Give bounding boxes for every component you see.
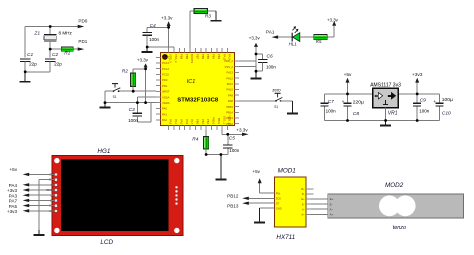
power +3.3v R5 bbox=[333, 26, 335, 37]
node C6 top bbox=[255, 53, 258, 56]
resistor R5 bbox=[314, 35, 328, 40]
pin 21 PB10 bbox=[210, 126, 212, 130]
IC IC1 STM32F103C8 body bbox=[161, 53, 235, 126]
svg-text:IC1: IC1 bbox=[187, 79, 195, 85]
svg-text:PD1: PD1 bbox=[162, 84, 168, 88]
svg-text:C2: C2 bbox=[52, 52, 58, 58]
wire +5v input rail bbox=[324, 93, 372, 95]
svg-text:+3,3v: +3,3v bbox=[249, 35, 261, 40]
pin 48 VDD_3 bbox=[168, 48, 170, 52]
pin 4 PC15 bbox=[156, 73, 160, 75]
LCD right pad 2 bbox=[175, 190, 177, 192]
svg-text:C5: C5 bbox=[229, 136, 235, 142]
svg-text:A-: A- bbox=[330, 207, 333, 211]
svg-text:zero: zero bbox=[271, 87, 281, 92]
wire VSSA link bbox=[137, 96, 156, 98]
capacitor C6 100n bbox=[256, 53, 263, 55]
svg-text:100µ: 100µ bbox=[442, 97, 453, 103]
wire crystal bottom lead bbox=[49, 42, 51, 49]
pin 19 PB1 bbox=[200, 126, 202, 130]
svg-text:A-: A- bbox=[302, 207, 305, 211]
capacitor C4 100n bbox=[142, 32, 152, 34]
resistor R3 bbox=[194, 8, 208, 13]
svg-text:VBAT: VBAT bbox=[162, 56, 169, 60]
svg-text:PA11: PA11 bbox=[227, 82, 234, 86]
LCD pad 1 VCC bbox=[55, 173, 58, 176]
ground R4 C5 bbox=[220, 155, 222, 179]
svg-text:220µ: 220µ bbox=[353, 99, 364, 105]
node C3 right +3.3v drop bbox=[144, 101, 147, 104]
svg-text:tenzo: tenzo bbox=[393, 225, 406, 231]
pin 6 PD1 bbox=[156, 85, 160, 87]
pin 2 PC13 bbox=[156, 62, 160, 64]
wire MOD1 ground bbox=[259, 207, 274, 209]
svg-text:PB11: PB11 bbox=[217, 118, 221, 125]
svg-text:C1: C1 bbox=[27, 52, 33, 58]
node +3.3v C4 tap bbox=[167, 26, 170, 29]
wire to R1 bbox=[50, 48, 61, 50]
node C5 +3.3v bbox=[226, 133, 229, 136]
node S1 ground VSS bbox=[104, 101, 107, 104]
capacitor C2 bbox=[49, 49, 51, 58]
ground LCD bbox=[38, 230, 40, 234]
terminal +3v3 LCD reset bbox=[29, 189, 55, 191]
wire R2 bottom bbox=[132, 87, 134, 92]
svg-text:R4: R4 bbox=[192, 137, 198, 143]
svg-text:+: + bbox=[342, 100, 345, 105]
resistor R1 bbox=[61, 47, 73, 51]
pin 28 PB15 bbox=[235, 106, 239, 108]
svg-text:C3: C3 bbox=[129, 107, 135, 113]
pin 31 PA10 bbox=[235, 89, 239, 91]
pin 26 PB13 bbox=[235, 117, 239, 119]
LCD screen bbox=[61, 160, 169, 232]
wire R5 to +3.3v bbox=[327, 36, 334, 38]
power +3.3v VDD_3 bbox=[168, 26, 170, 48]
LCD right pad 3 bbox=[175, 194, 177, 196]
svg-text:PB1: PB1 bbox=[201, 119, 205, 125]
pin 42 PB6 bbox=[200, 48, 202, 52]
svg-text:LCD: LCD bbox=[100, 239, 113, 246]
LCD hole bottom-right bbox=[174, 228, 179, 233]
pin 5 PD0 bbox=[156, 79, 160, 81]
terminal PA4 LCD bbox=[29, 184, 55, 186]
svg-text:B+: B+ bbox=[301, 187, 305, 191]
node ground stub bbox=[220, 153, 223, 156]
svg-text:+3v3: +3v3 bbox=[412, 72, 423, 78]
svg-text:PB15: PB15 bbox=[226, 105, 233, 109]
pin 12 PA2 bbox=[156, 119, 160, 121]
terminal PA5 LCD bbox=[29, 205, 55, 207]
pin 1 VBAT bbox=[156, 56, 160, 58]
terminal PA1 bbox=[278, 36, 293, 38]
svg-text:STM32F103C8: STM32F103C8 bbox=[177, 97, 219, 103]
svg-text:GND: GND bbox=[276, 206, 282, 210]
svg-text:MOD1: MOD1 bbox=[278, 167, 296, 174]
svg-text:DT: DT bbox=[276, 201, 280, 205]
terminal PD1 bbox=[73, 48, 78, 50]
svg-text:VDD_1: VDD_1 bbox=[228, 115, 232, 124]
wire PA8 bbox=[239, 100, 276, 102]
svg-text:PA5: PA5 bbox=[179, 119, 183, 124]
LCD pad 8 LED bbox=[55, 210, 58, 213]
svg-text:E-: E- bbox=[302, 202, 305, 206]
node +3v3 C9 bbox=[416, 93, 419, 96]
wire R2 top bbox=[133, 68, 145, 70]
wire VDD_1 drop bbox=[221, 130, 223, 134]
pin 25 PB12 bbox=[235, 123, 239, 125]
wire +3v3 output rail bbox=[398, 93, 439, 95]
node C3 left bbox=[136, 101, 139, 104]
power +5v input bbox=[347, 83, 349, 94]
pin 32 PA11 bbox=[235, 83, 239, 85]
terminal +5v LCD bbox=[29, 173, 55, 175]
pin 46 PB9 bbox=[178, 48, 180, 52]
pin 44 BOOT0 bbox=[189, 48, 191, 52]
wire BOOT0 riser bbox=[189, 11, 191, 48]
pin 14 PA4 bbox=[173, 126, 175, 130]
MOD1 pin E+ bbox=[306, 198, 311, 200]
pin 13 PA3 bbox=[168, 126, 170, 130]
svg-text:C6: C6 bbox=[267, 54, 273, 60]
svg-text:VDD_3: VDD_3 bbox=[169, 54, 173, 63]
svg-text:R1: R1 bbox=[64, 50, 70, 56]
svg-text:PA7: PA7 bbox=[190, 119, 194, 124]
svg-text:+5v: +5v bbox=[252, 169, 260, 174]
svg-text:+3.3v: +3.3v bbox=[236, 127, 248, 132]
wire zero to ground bbox=[281, 100, 293, 102]
pin 17 PA7 bbox=[189, 126, 191, 130]
node R2 NRST bbox=[132, 90, 135, 93]
svg-text:A+: A+ bbox=[301, 213, 305, 217]
node R2 +3.3v bbox=[144, 67, 147, 70]
node VR1 ground bbox=[384, 119, 387, 122]
pin 34 PA13 bbox=[235, 71, 239, 73]
svg-text:R2: R2 bbox=[122, 68, 128, 74]
LCD hole bottom-left bbox=[54, 228, 59, 233]
svg-text:+3v3: +3v3 bbox=[7, 209, 18, 214]
svg-text:PB2: PB2 bbox=[206, 119, 210, 125]
ground crystal bbox=[24, 72, 26, 81]
wire R4 bottom bbox=[205, 149, 207, 155]
svg-text:PA8: PA8 bbox=[228, 99, 233, 103]
ground VR1 bbox=[385, 121, 387, 125]
power +5v MOD1 bbox=[260, 192, 275, 194]
svg-text:PB9: PB9 bbox=[179, 54, 183, 60]
svg-text:PC15: PC15 bbox=[162, 73, 169, 77]
VR1 output arrow bbox=[388, 93, 395, 99]
LCD right pad 4 bbox=[175, 198, 177, 200]
pin 45 PB8 bbox=[184, 48, 186, 52]
terminal PA3 LCD bbox=[29, 194, 55, 196]
wire R4 top bbox=[205, 130, 207, 137]
pin 9 VDDA bbox=[156, 102, 160, 104]
svg-text:PA9: PA9 bbox=[228, 93, 233, 97]
pin 16 PA6 bbox=[184, 126, 186, 130]
module MOD2 load cell body bbox=[328, 194, 464, 218]
terminal PA7 LCD bbox=[29, 199, 55, 201]
capacitor C7 100n bbox=[320, 102, 328, 104]
svg-text:PB4: PB4 bbox=[212, 54, 216, 60]
svg-text:PA2: PA2 bbox=[162, 118, 167, 122]
MOD1 pin SCK bbox=[270, 197, 275, 199]
wire R3 to ground bbox=[208, 10, 217, 12]
svg-text:100n: 100n bbox=[266, 65, 276, 70]
node crystal bottom / R1 / C2 bbox=[49, 48, 52, 51]
svg-text:PA13: PA13 bbox=[227, 71, 234, 75]
svg-text:+5v: +5v bbox=[344, 72, 352, 78]
regulator VR1 AMS1117 body bbox=[373, 88, 399, 107]
svg-text:PB6: PB6 bbox=[201, 54, 205, 60]
svg-text:PA12: PA12 bbox=[227, 76, 234, 80]
wire bottom ground rail bbox=[324, 120, 439, 122]
ground R3 bbox=[215, 11, 217, 20]
svg-text:100n: 100n bbox=[128, 118, 138, 123]
svg-text:VDDA: VDDA bbox=[162, 101, 170, 105]
pin 7 NRST bbox=[156, 90, 160, 92]
svg-text:+: + bbox=[433, 100, 436, 105]
MOD1 pin B+ bbox=[306, 188, 313, 190]
capacitor C1 bbox=[20, 58, 30, 60]
pin 33 PA12 bbox=[235, 77, 239, 79]
wire crystal top lead bbox=[49, 27, 51, 35]
svg-text:PA1: PA1 bbox=[162, 112, 167, 116]
svg-text:PD0: PD0 bbox=[162, 78, 168, 82]
node C4 ground bbox=[146, 46, 149, 49]
wire left C1 drop bbox=[24, 27, 26, 58]
svg-text:PA3: PA3 bbox=[169, 119, 173, 124]
ground C6 bbox=[255, 71, 257, 77]
wire C2 bottom rail bbox=[49, 62, 51, 72]
wire crystal top rail PD0 bbox=[25, 26, 78, 28]
terminal +3.3v C5 bbox=[228, 133, 243, 135]
svg-text:Z1: Z1 bbox=[33, 31, 40, 37]
power +3v3 output bbox=[416, 83, 418, 94]
svg-text:PB13: PB13 bbox=[227, 203, 239, 208]
MOD2 hole right bbox=[395, 195, 416, 216]
pin 29 PA8 bbox=[235, 100, 239, 102]
MOD1 pin PW bbox=[270, 192, 275, 194]
node C8 ground bbox=[346, 119, 349, 122]
pin 36 VDD_2 bbox=[235, 60, 239, 62]
pin 47 VSS_3 bbox=[173, 48, 175, 52]
svg-text:NRST: NRST bbox=[162, 90, 170, 94]
svg-text:100n: 100n bbox=[229, 148, 239, 153]
svg-text:100n: 100n bbox=[326, 109, 337, 114]
node C9 ground bbox=[416, 119, 419, 122]
LCD hole top-right bbox=[174, 158, 179, 163]
pin 18 PB0 bbox=[194, 126, 196, 130]
svg-text:PA14: PA14 bbox=[228, 54, 232, 61]
svg-text:PA10: PA10 bbox=[227, 88, 234, 92]
svg-text:PB0: PB0 bbox=[196, 119, 200, 125]
MOD1 pin B- bbox=[306, 193, 313, 195]
pin 35 VSS_2 bbox=[235, 66, 239, 68]
capacitor C5 100n bbox=[227, 134, 229, 144]
svg-text:E-: E- bbox=[330, 202, 333, 206]
svg-text:PB3: PB3 bbox=[217, 54, 221, 60]
svg-text:PB7: PB7 bbox=[196, 54, 200, 60]
pin 39 PB3 bbox=[216, 48, 218, 52]
svg-text:PA1: PA1 bbox=[266, 30, 275, 35]
svg-text:PA0: PA0 bbox=[162, 107, 167, 111]
svg-text:PD1: PD1 bbox=[78, 39, 87, 44]
wire NRST bbox=[119, 90, 157, 92]
svg-text:E+: E+ bbox=[330, 197, 334, 201]
capacitor C8 220u electrolytic bbox=[347, 94, 349, 103]
svg-text:S1: S1 bbox=[113, 95, 117, 99]
svg-text:R3: R3 bbox=[205, 14, 211, 20]
LCD module HG1 board bbox=[52, 156, 183, 236]
wire C4 top bbox=[147, 26, 168, 28]
svg-text:VSS_1: VSS_1 bbox=[222, 116, 226, 125]
node crystal top bbox=[49, 25, 52, 28]
svg-text:HG1: HG1 bbox=[97, 148, 110, 155]
svg-text:PB12: PB12 bbox=[227, 194, 239, 199]
VR1 input arrow bbox=[375, 93, 382, 99]
svg-text:PA15: PA15 bbox=[222, 54, 226, 61]
ground zero button bbox=[291, 101, 293, 113]
LCD right pad 5 bbox=[175, 202, 177, 204]
LCD hole top-left bbox=[54, 158, 59, 163]
MOD1 pin A+ bbox=[306, 213, 311, 215]
resistor R2 bbox=[131, 73, 136, 87]
capacitor C10 100u electrolytic bbox=[435, 102, 443, 104]
LCD pad 7 SCK bbox=[55, 204, 58, 207]
push button S1 reset bbox=[112, 84, 120, 93]
terminal PB12 SCK bbox=[248, 197, 274, 199]
MOD1 pin GND bbox=[270, 207, 275, 209]
pin 40 PB4 bbox=[210, 48, 212, 52]
MOD2 hole left bbox=[379, 195, 400, 216]
wire VDDA rail bbox=[105, 102, 156, 104]
wire MOD1 to MOD2 A+ bbox=[311, 213, 328, 215]
wire VDD_2 link bbox=[239, 60, 256, 62]
pin 30 PA9 bbox=[235, 94, 239, 96]
ground MOD1 bbox=[258, 208, 260, 221]
svg-text:A+: A+ bbox=[330, 213, 334, 217]
terminal PB13 DT bbox=[248, 202, 274, 204]
svg-text:BOOT0: BOOT0 bbox=[190, 54, 194, 64]
svg-text:8 MHz: 8 MHz bbox=[59, 31, 73, 36]
LCD pad 2 GND bbox=[55, 178, 58, 181]
LCD pad 3 CS bbox=[55, 184, 58, 187]
svg-text:+3.3v: +3.3v bbox=[161, 15, 173, 20]
svg-text:PB5: PB5 bbox=[206, 54, 210, 60]
svg-text:E+: E+ bbox=[301, 197, 305, 201]
pin 11 PA1 bbox=[156, 113, 160, 115]
svg-text:PC13: PC13 bbox=[162, 61, 169, 65]
IC1 pin-1 marker bbox=[162, 54, 168, 60]
wire MOD1 to MOD2 A- bbox=[311, 208, 328, 210]
crystal Z1 bbox=[44, 34, 57, 41]
wire MOD1 to MOD2 E+ bbox=[311, 198, 328, 200]
pin 23 VSS_1 bbox=[221, 126, 223, 130]
svg-text:PC14: PC14 bbox=[162, 67, 169, 71]
svg-text:C8: C8 bbox=[353, 111, 360, 117]
pin 43 PB7 bbox=[194, 48, 196, 52]
svg-text:C9: C9 bbox=[420, 98, 427, 104]
wire VSS_3 ground link bbox=[147, 46, 174, 48]
wire S1 to ground corner bbox=[105, 90, 113, 92]
node C6 bottom bbox=[255, 70, 258, 73]
LCD right pad 1 bbox=[175, 186, 177, 188]
svg-text:100n: 100n bbox=[149, 37, 159, 42]
node R4 ground rail bbox=[205, 153, 208, 156]
terminal PD0 bbox=[50, 26, 78, 28]
svg-text:SCK: SCK bbox=[276, 197, 282, 201]
svg-text:AMS1117 3v3: AMS1117 3v3 bbox=[370, 83, 401, 89]
LCD pad 6 SDI bbox=[55, 199, 58, 202]
wire LED to R5 bbox=[300, 36, 314, 38]
pin 3 PC14 bbox=[156, 68, 160, 70]
svg-text:PB14: PB14 bbox=[226, 111, 233, 115]
module MOD1 HX711 body bbox=[275, 177, 307, 227]
power +3.3v C6 bbox=[255, 47, 257, 54]
svg-text:+3.3v: +3.3v bbox=[327, 18, 339, 23]
svg-text:+5v: +5v bbox=[9, 167, 17, 172]
pin 37 PA14 bbox=[227, 48, 229, 52]
node +5v C8 bbox=[346, 93, 349, 96]
LCD pad 5 DC bbox=[55, 194, 58, 197]
pin 27 PB14 bbox=[235, 111, 239, 113]
svg-text:B-: B- bbox=[302, 192, 305, 196]
wire C7 drop bbox=[323, 94, 325, 103]
svg-text:22p: 22p bbox=[54, 61, 62, 66]
MOD1 pin E- bbox=[306, 203, 311, 205]
svg-text:C4: C4 bbox=[150, 23, 156, 29]
svg-text:PB10: PB10 bbox=[212, 118, 216, 125]
LCD pad 4 RESET bbox=[55, 189, 58, 192]
svg-text:VSSA: VSSA bbox=[162, 95, 169, 99]
svg-text:PA6: PA6 bbox=[185, 119, 189, 124]
svg-text:PB8: PB8 bbox=[185, 54, 189, 60]
svg-text:HL1: HL1 bbox=[289, 41, 298, 46]
pin 10 PA0 bbox=[156, 107, 160, 109]
wire C6 main vertical bbox=[255, 54, 257, 78]
svg-text:HX711: HX711 bbox=[276, 234, 295, 241]
svg-text:VR1: VR1 bbox=[388, 111, 398, 117]
svg-text:22p: 22p bbox=[29, 61, 37, 66]
svg-text:PW: PW bbox=[276, 191, 281, 195]
svg-text:MOD2: MOD2 bbox=[385, 182, 404, 189]
svg-text:C10: C10 bbox=[442, 111, 451, 117]
pin 20 PB2 bbox=[205, 126, 207, 130]
MOD1 pin A- bbox=[306, 208, 311, 210]
wire VR1 ground pin bbox=[385, 108, 387, 125]
wire C1 bottom bbox=[24, 62, 26, 72]
pin 38 PA15 bbox=[221, 48, 223, 52]
terminal +3v3 LCD backlight bbox=[29, 210, 55, 212]
wire MOD1 to MOD2 E- bbox=[311, 203, 328, 205]
LED HL1 bbox=[292, 26, 300, 41]
svg-text:R5: R5 bbox=[316, 39, 322, 44]
wire VSS_2 link bbox=[239, 66, 256, 68]
ground C4 bbox=[146, 47, 148, 51]
pin 8 VSSA bbox=[156, 96, 160, 98]
wire C4 bottom bbox=[146, 36, 148, 52]
svg-text:VSS_3: VSS_3 bbox=[174, 54, 178, 63]
MOD1 pin DT bbox=[270, 202, 275, 204]
ground S1 bbox=[104, 103, 106, 107]
wire +3.3v vertical bbox=[145, 69, 147, 103]
resistor R4 bbox=[204, 137, 209, 149]
node ground join bbox=[24, 70, 27, 73]
VR1 internal ground bbox=[385, 100, 387, 104]
pin 22 PB11 bbox=[216, 126, 218, 130]
push button S1 zero bbox=[275, 93, 283, 102]
power +3.3v R2 bbox=[145, 67, 147, 68]
